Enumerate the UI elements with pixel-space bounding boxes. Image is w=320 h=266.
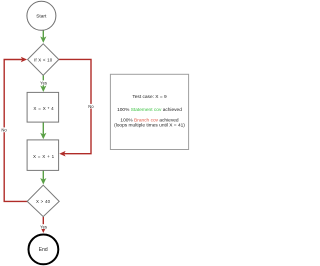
label Yes (D2 bottom) xyxy=(40,224,48,229)
svg-text:Yes: Yes xyxy=(40,224,47,229)
process P1: X = X * 4 xyxy=(27,92,58,122)
decision D2: X > 40 xyxy=(27,185,59,216)
svg-text:X = X * 4: X = X * 4 xyxy=(33,106,54,111)
svg-text:Yes: Yes xyxy=(40,81,47,86)
wire: D1 Yes-branch to box P1 (green) xyxy=(40,76,46,93)
svg-text:(loops multiple times until X: (loops multiple times until X = 41) xyxy=(114,123,185,129)
wire: box P1 to box P2 (green) xyxy=(40,122,46,139)
svg-text:100% Statement cov achieved: 100% Statement cov achieved xyxy=(117,107,182,113)
decision D1: If X < 10 xyxy=(28,44,59,76)
wire: No-branch from D2 left vertex up to D1 (red) xyxy=(4,57,27,202)
terminator: End circle xyxy=(29,235,59,265)
terminator: Start circle xyxy=(27,1,56,30)
label No (right branch) xyxy=(88,104,94,109)
svg-text:No: No xyxy=(88,104,94,109)
svg-text:100% Branch cov achieved: 100% Branch cov achieved xyxy=(120,118,178,124)
label Yes (D1 bottom) xyxy=(40,80,48,85)
wire: No-branch from D1 right vertex to box P2 (red) xyxy=(59,59,91,156)
wire: Start to decision D1 (green) xyxy=(40,30,46,43)
annotation box: test case notes xyxy=(110,74,188,149)
svg-text:X = X + 1: X = X + 1 xyxy=(33,154,55,159)
svg-text:End: End xyxy=(39,247,48,253)
label No (left branch) xyxy=(1,127,8,132)
svg-text:If X < 10: If X < 10 xyxy=(34,57,53,62)
svg-text:No: No xyxy=(1,128,7,133)
wire: D2 Yes-branch to End (red) xyxy=(41,217,46,233)
svg-text:Test case: X = 9: Test case: X = 9 xyxy=(132,94,167,100)
svg-text:X > 40: X > 40 xyxy=(36,199,51,204)
wire: box P2 to decision D2 (green) xyxy=(40,170,46,184)
svg-text:Start: Start xyxy=(36,14,47,20)
process P2: X = X + 1 xyxy=(27,140,58,171)
